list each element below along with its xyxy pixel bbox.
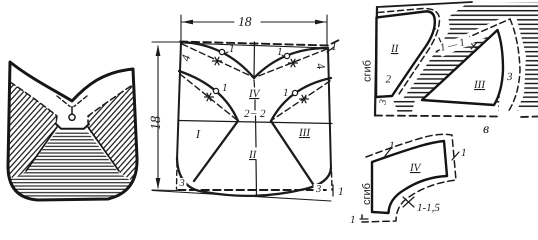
marker circle lower-left [213,88,218,93]
svg-text:1: 1 [229,43,235,55]
fabric hatch block [377,2,538,113]
asterisk upper-left [213,57,222,65]
diagonal boundary left [26,127,57,171]
fabric left edge (fold) [375,7,377,116]
hatch left region [2,82,57,180]
left dimension arrowheads [156,45,161,189]
hatch right region [88,86,143,180]
piece II dashed cut line [378,8,440,94]
square right edge dashed bottom [331,172,334,190]
diagonal boundary right [88,127,119,171]
svg-text:1: 1 [283,87,289,99]
middle labels [149,14,344,198]
upper-left curve [181,42,254,78]
label 1-1 gap [438,35,472,54]
left dimension extension top [152,41,180,43]
svg-text:2: 2 [244,108,250,120]
lower-right dashed chord [272,81,330,120]
center line (axis) lower [254,80,257,196]
lower-left curve [179,71,238,121]
slipper outline [8,62,137,200]
inner dashed seam line right [88,86,131,123]
marker circle upper-left [219,49,224,54]
svg-text:сгиб: сгиб [362,60,374,82]
square bottom dashed line [178,189,330,191]
region II right diagonal [271,121,315,187]
svg-text:I: I [195,127,201,141]
svg-text:1: 1 [350,214,356,226]
region II left diagonal [194,121,238,181]
svg-text:2: 2 [386,74,392,86]
tick bottom x [403,197,414,207]
piece IV outline [372,141,447,213]
svg-text:1-1,5: 1-1,5 [417,202,440,214]
svg-text:18: 18 [149,116,164,130]
horizontal divider line [178,121,332,124]
piece IV dashed allowance [362,134,456,222]
fig v labels [362,35,514,137]
square top edge thin [181,43,328,48]
asterisk upper-right [289,59,298,67]
top dimension extension left [180,15,182,40]
inner dashed V notch [57,96,87,107]
tick at 1-1 [439,38,443,47]
white band along 1-1 diagonal [435,17,511,57]
square right edge [328,48,331,170]
svg-text:–: – [250,107,257,119]
left dimension extension bottom [152,189,177,192]
piece II outline [376,11,435,97]
svg-text:18: 18 [238,14,252,29]
dashed diagonal to apex 1-1 [437,19,510,51]
tick right [452,152,459,160]
svg-text:1: 1 [277,46,283,58]
bottom thin sloped line [152,191,331,202]
asterisk lower-right [300,95,309,103]
svg-text:3: 3 [506,71,513,83]
svg-text:3: 3 [315,184,321,195]
upper-right curve [254,48,328,78]
tick x after 1-1 [471,43,477,49]
center vertical line top [253,42,256,78]
svg-text:IV: IV [248,88,261,100]
svg-text:1: 1 [222,82,228,94]
asterisk lower-left [205,93,214,101]
dashed arc right of III [508,19,520,112]
white margin along piece III right [494,16,526,113]
white top-left strip [372,0,472,26]
white strip under piece III [412,100,498,112]
top dimension line [182,21,326,23]
square left edge dashed bottom [176,162,179,189]
svg-text:III: III [298,127,311,139]
keyhole circle [69,114,75,120]
svg-text:1: 1 [389,140,395,152]
svg-text:3: 3 [179,178,185,189]
top dimension arrowheads [182,20,326,25]
tick top-right corner [327,47,334,52]
svg-text:сгиб: сгиб [361,183,373,205]
svg-text:III: III [473,79,486,91]
marker circle lower-right [292,90,297,95]
fig g labels [350,140,467,226]
square top dashed line [180,39,341,46]
leader 1 upper-left [224,52,228,54]
svg-text:4: 4 [313,61,328,70]
left dimension line [157,46,159,188]
marker circle upper-right [284,53,289,58]
tick bottom-right corner [332,185,334,196]
top dimension extension right [326,15,328,46]
piece III outline [422,30,503,105]
fabric top edge [377,2,472,7]
upper-left dashed chord [182,44,253,77]
svg-text:в: в [483,122,489,137]
inner dashed seam line left [10,82,57,123]
white margin along piece II [388,8,450,100]
upper-right dashed chord [256,49,327,77]
lower-left dashed chord [180,74,237,120]
leader 1 upper-right [282,55,285,57]
tick bottom-left [360,218,368,220]
svg-text:II: II [248,149,258,161]
label 3 bottom-left [178,178,187,189]
square left edge [177,42,181,160]
white quad under piece II with 3 [374,97,398,114]
bottom outline with rounded corners [177,158,331,196]
collar solid line [56,124,89,129]
hatch center bottom region [2,131,143,205]
tick top [385,147,392,156]
svg-text:1: 1 [461,147,467,159]
keyhole stem [71,107,73,115]
svg-text:IV: IV [409,162,422,174]
svg-text:II: II [390,43,400,55]
svg-text:1: 1 [331,39,337,53]
svg-text:1: 1 [338,186,344,198]
svg-text:2: 2 [260,108,266,120]
label 3 bottom-right [314,184,324,195]
lower-right curve [271,78,331,121]
fabric bottom dashed edge [375,116,538,118]
